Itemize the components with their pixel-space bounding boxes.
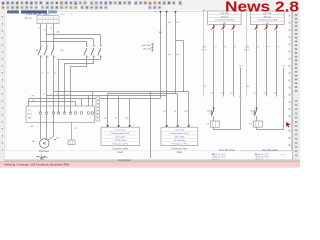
svg-text:-M 960 U/min: -M 960 U/min (174, 140, 186, 142)
svg-text:-W2: -W2 (30, 126, 33, 128)
wire labels (38, 28, 53, 32)
svg-text:4x1,5: 4x1,5 (201, 50, 206, 52)
svg-text:Drill feed: Drill feed (39, 150, 49, 153)
svg-text:2: 2 (45, 22, 46, 24)
svg-text:V1: V1 (115, 118, 117, 120)
svg-text:-Q9: -Q9 (250, 110, 253, 112)
svg-text:U1: U1 (104, 118, 106, 120)
svg-text:400V gG: 400V gG (221, 16, 229, 18)
svg-text:2/5: 2/5 (70, 14, 73, 16)
svg-text:Door flap smart: Door flap smart (219, 149, 235, 152)
bus labels (32, 94, 70, 102)
svg-text:-W1 TB: -W1 TB (24, 18, 32, 20)
wire drop to M2 box (178, 92, 189, 128)
node supply L1 (155, 11, 162, 99)
toolbar (0, 0, 300, 10)
svg-text:D02: D02 (223, 23, 226, 25)
svg-text:1 U1 V1 W1: 1 U1 V1 W1 (115, 130, 125, 132)
svg-text:-W5: -W5 (245, 47, 248, 49)
svg-text:V1: V1 (174, 111, 176, 113)
svg-text:4x1,5: 4x1,5 (244, 50, 249, 52)
bus wire PE (54, 92, 189, 107)
svg-text:3: 3 (50, 22, 51, 24)
motor box M2 data (161, 111, 198, 154)
red junction A (57, 59, 59, 60)
svg-text:D02: D02 (266, 23, 269, 25)
wire PE drop (150, 92, 152, 159)
svg-text:W1: W1 (126, 118, 129, 120)
svg-text:1/5.0: 1/5.0 (61, 14, 65, 16)
svg-text:mit Sammelschiene 3NA: mit Sammelschiene 3NA (215, 19, 235, 22)
svg-text:-W5: -W5 (202, 47, 205, 49)
bottom strip (0, 167, 300, 169)
wire Q2 return (59, 57, 101, 113)
svg-text:-X2: -X2 (203, 86, 206, 88)
svg-text:News 2.8: News 2.8 (225, 0, 299, 15)
svg-text:-R1: -R1 (74, 128, 77, 130)
brake resistor R1 (68, 122, 77, 144)
left panel strip (0, 10, 5, 161)
bus wire N (29, 102, 76, 107)
svg-text:1 U1 V1 W1: 1 U1 V1 W1 (174, 130, 184, 132)
terminal table X0 (37, 16, 59, 24)
svg-text:3AC 16A: 3AC 16A (143, 47, 152, 50)
frame row letters (289, 15, 291, 147)
page tab band (7, 10, 57, 13)
svg-text:Feed: Feed (177, 152, 183, 154)
wire to motor M1 (41, 114, 54, 140)
svg-text:L2: L2 (44, 30, 46, 32)
page frame (6, 10, 291, 151)
red junction B (92, 63, 94, 64)
svg-text:L3: L3 (50, 18, 52, 20)
message bar (0, 161, 300, 166)
svg-text:L1: L1 (155, 12, 157, 14)
fuse feeder F3 (244, 10, 285, 161)
node supply L3 (174, 11, 177, 94)
svg-text:Thermistor 2 x PTC: Thermistor 2 x PTC (171, 142, 188, 145)
svg-text:L4: L4 (55, 18, 57, 20)
terminal box X1 (26, 106, 95, 122)
svg-text:L1: L1 (39, 18, 41, 20)
bus wire 2 (108, 94, 178, 128)
svg-text:400V / 50Hz: 400V / 50Hz (174, 136, 184, 138)
svg-text:L2: L2 (44, 18, 46, 20)
svg-text:Drehstrommotor 4 kW: Drehstrommotor 4 kW (170, 132, 188, 135)
wire L3 lower (53, 57, 55, 113)
motor M1 (32, 138, 60, 148)
svg-text:mit Sammelschiene 3NA: mit Sammelschiene 3NA (258, 19, 278, 22)
svg-text:M: M (43, 142, 46, 146)
contactor Q2 (60, 45, 102, 57)
svg-text:Door flap smart: Door flap smart (262, 149, 278, 152)
svg-text:Drehstrommotor 4 kW: Drehstrommotor 4 kW (111, 132, 129, 135)
wire branch 183 (176, 41, 184, 92)
red connection point (57, 31, 59, 32)
scrollbar band (5, 159, 300, 161)
svg-text:Meldung / message: 103 Anschlu: Meldung / message: 103 Anschluss aktuali… (5, 162, 70, 166)
svg-text:Thermistor 2 x PTC: Thermistor 2 x PTC (112, 142, 129, 145)
svg-text:400V 50Hz: 400V 50Hz (141, 45, 151, 47)
svg-text:U1: U1 (163, 111, 165, 113)
svg-text:L3: L3 (50, 28, 52, 30)
bus wire 4 (29, 99, 161, 128)
svg-text:L1: L1 (38, 28, 40, 30)
right panel strip (293, 10, 301, 161)
svg-text:PE N: PE N (28, 114, 33, 116)
pin labels (41, 73, 56, 74)
fuse feeder F2 (201, 10, 242, 161)
wire branch to Q2 (41, 35, 101, 47)
svg-text:5 / 6: 5 / 6 (281, 154, 285, 156)
cable marker W1 (141, 22, 179, 55)
wire L2 lower (46, 57, 48, 113)
wire L1 lower (40, 57, 42, 113)
svg-text:Feed: Feed (118, 152, 124, 154)
svg-text:W1: W1 (185, 111, 188, 113)
svg-text:1: 1 (39, 22, 40, 24)
motor box M1 data (101, 118, 140, 154)
red cursor (286, 122, 290, 128)
svg-text:Conveyor return: Conveyor return (171, 147, 188, 150)
node supply L2 (165, 11, 168, 127)
svg-text:-Q9: -Q9 (207, 110, 210, 112)
contactor Q1 (35, 45, 55, 57)
svg-text:-M 960 U/min: -M 960 U/min (114, 140, 126, 142)
wire duct (96, 97, 100, 121)
svg-text:Conveyor drive: Conveyor drive (112, 147, 128, 150)
wire L1 (40, 24, 42, 47)
svg-text:-X2: -X2 (246, 86, 249, 88)
svg-text:400V / 50Hz: 400V / 50Hz (115, 136, 125, 138)
terminals (39, 112, 94, 115)
schematic canvas (5, 10, 293, 159)
svg-text:-F9: -F9 (206, 124, 209, 126)
svg-text:-F9: -F9 (249, 124, 252, 126)
svg-text:400V gG: 400V gG (264, 16, 272, 18)
wire L2 (46, 24, 48, 47)
wire L3 (53, 24, 55, 47)
bus wire 3 (47, 96, 167, 128)
svg-text:4: 4 (56, 22, 57, 24)
ground PE (36, 155, 49, 160)
